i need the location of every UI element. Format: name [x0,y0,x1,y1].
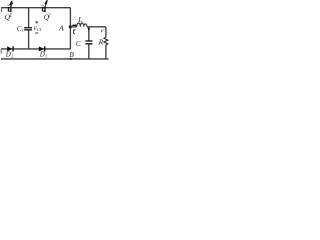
diode D2 [7,46,14,51]
svg-text:C1: C1 [37,27,42,32]
node A junction dot [69,25,72,28]
junction blob on bottom rail below B [69,58,72,60]
wire C1 stem lower [28,30,30,49]
svg-text:R: R [98,37,104,46]
wire left input stub top [1,8,3,12]
svg-text:A: A [58,24,64,33]
capacitor C [85,40,92,42]
wire diode rail [1,48,70,50]
diode D1 [39,46,46,51]
resistor R [104,37,108,45]
wire resistor column lower [105,45,107,59]
svg-text:2: 2 [11,53,13,58]
wire capacitor C stem upper [88,27,90,41]
transistor Q1 [7,1,13,12]
wire C1 stem upper [28,8,30,28]
current arrow iL [72,24,75,26]
transistor Q2 [41,1,47,13]
minus sign vC1 [35,32,38,34]
svg-text:L: L [77,15,82,24]
inductor L [77,23,87,27]
wire left input stub bottom [0,49,2,54]
svg-text:D: D [39,51,45,59]
svg-text:1: 1 [45,53,47,58]
wire bottom rail [1,58,109,60]
wire right column from top rail to diode rail [69,8,71,49]
capacitor C1 [24,27,32,29]
svg-text:2: 2 [48,13,51,19]
wire capacitor C stem lower [88,44,90,59]
svg-text:B: B [69,51,74,59]
label iL [73,29,75,33]
svg-text:v: v [101,28,104,35]
svg-text:D: D [5,51,11,59]
svg-text:C: C [76,39,82,48]
current arrow iC [88,28,91,31]
svg-text:1: 1 [9,13,12,19]
plus sign vC1 [35,21,38,23]
svg-text:1: 1 [22,28,24,33]
wire inductor branch [70,26,76,28]
wire resistor column upper [105,27,107,37]
wire top rail [1,7,70,9]
